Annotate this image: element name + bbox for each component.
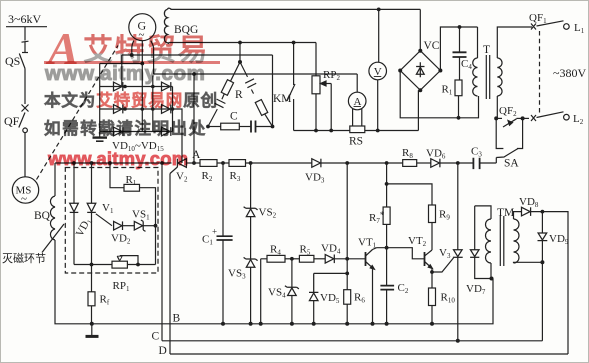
wire: VD8 out: [531, 212, 568, 354]
wire: TM left bottom: [490, 263, 492, 279]
node main bus / R1 branch: [108, 161, 112, 165]
watermark www.aitmy.com gray: [45, 62, 205, 86]
svg-text:C3: C3: [471, 146, 482, 159]
wire: D rail riser (V2 gate): [169, 174, 171, 355]
switch QS: [19, 53, 28, 69]
svg-text:R7*: R7*: [369, 210, 385, 225]
dashed link MS to G: [37, 46, 119, 180]
label 灭磁环节: [2, 252, 46, 265]
svg-text:QF: QF: [4, 114, 20, 128]
wire: T secondary top to QF1: [497, 27, 532, 58]
dashed box (demagnetization unit): [65, 168, 158, 274]
svg-text:VS4: VS4: [268, 287, 286, 300]
node W1/G-left: [130, 53, 134, 57]
label V3: [439, 247, 451, 260]
label R2: [202, 170, 213, 183]
label VS2: [259, 207, 277, 220]
wire: R1 branch: [110, 163, 124, 188]
svg-text:~: ~: [21, 193, 27, 205]
delta left slope capacitor: [208, 99, 225, 126]
svg-text:VD4: VD4: [321, 243, 341, 256]
svg-text:C4: C4: [461, 58, 472, 71]
wire W3 phase right: [154, 73, 358, 75]
svg-text:V2: V2: [176, 171, 188, 184]
label R4: [270, 244, 281, 257]
svg-text:VD3: VD3: [305, 172, 325, 185]
diode VD9: [538, 212, 548, 341]
wire: R9 to VT2 collector: [431, 223, 433, 251]
delta bottom wire mid: [239, 126, 251, 128]
label R6: [354, 292, 365, 305]
resistor R1 (VC): [455, 80, 462, 96]
wire: TM left top link: [475, 206, 491, 219]
G lead right: [153, 48, 155, 74]
switch SA: [496, 118, 522, 163]
rectifier VC (bridge diamond): [400, 51, 440, 90]
node RP2 bottom: [314, 129, 318, 133]
svg-text:L1: L1: [574, 22, 585, 35]
wire: BQ to bottom: [55, 240, 92, 324]
label SA: [504, 158, 519, 170]
diode VD15: [162, 127, 171, 136]
wire: R1 to line A: [458, 96, 460, 118]
node C riser top: [160, 161, 164, 165]
resistor R9: [429, 205, 436, 223]
wire: bridge row1: [100, 86, 173, 88]
label VD1 (rotated): [74, 216, 95, 240]
svg-text:VT2: VT2: [408, 235, 427, 248]
node V3 riser top: [456, 161, 460, 165]
delta right slope resistor: [255, 100, 272, 127]
node R9 branch: [385, 182, 389, 186]
label VS4: [268, 287, 286, 300]
capacitor C3: [473, 158, 496, 169]
label R5: [300, 244, 311, 257]
node VC bottom: [418, 88, 422, 92]
potentiometer RP1: [112, 256, 138, 269]
TM core: [500, 216, 504, 266]
wire: bridge mid bus: [141, 64, 143, 132]
node VC top: [418, 49, 422, 53]
zener VS3: [244, 257, 258, 323]
ground (main): [86, 324, 99, 337]
diode VD4: [325, 255, 334, 264]
watermark logo A: [48, 22, 79, 75]
node TM-left bottom junction: [490, 277, 494, 281]
wire: Rf to B rail: [91, 306, 93, 324]
diode VD13: [162, 82, 171, 91]
svg-text:R6: R6: [354, 292, 365, 305]
svg-text:VD2: VD2: [111, 233, 131, 246]
wire: apex riser: [239, 43, 241, 63]
label R8: [402, 147, 413, 160]
label VD6: [426, 148, 446, 161]
node VD5 branch: [345, 272, 349, 276]
label VD2: [111, 233, 131, 246]
QF2 x-mark and blade to L2: [523, 112, 564, 121]
node VT2 emitter / V3 gate: [430, 270, 434, 274]
label RP2: [323, 69, 340, 82]
wire: top bus from BQG to VC: [171, 8, 421, 10]
label QF: [4, 114, 20, 128]
capacitor C4: [453, 27, 467, 80]
ground at bridge: [93, 132, 108, 142]
label VD7: [466, 283, 486, 296]
resistor R1 (box): [124, 184, 140, 191]
label KM: [273, 93, 292, 105]
G lead left: [131, 48, 133, 55]
node box rail / V1: [90, 263, 94, 267]
G lead mid: [141, 41, 143, 64]
inductor BQG: [164, 8, 171, 43]
wire: R3 to VD3: [246, 162, 312, 164]
resistor R4: [267, 255, 285, 262]
node R6 / B rail: [345, 322, 349, 326]
svg-text:VC: VC: [424, 40, 440, 52]
wire: box bottom rail: [74, 264, 156, 266]
node V / metering rail: [376, 129, 380, 133]
svg-text:V1: V1: [102, 202, 114, 215]
node VD9 top: [541, 210, 545, 214]
node RP1 wiper return: [136, 263, 140, 267]
node RP2 wiper bottom: [329, 129, 333, 133]
wire: bridge col2 anode bus: [152, 76, 154, 132]
svg-text:VS1: VS1: [132, 209, 150, 222]
label C2: [398, 282, 409, 295]
node J1 riser top: [345, 161, 349, 165]
wire: QF to MS: [24, 133, 26, 177]
diode VD11: [114, 105, 123, 114]
svg-text:V3: V3: [439, 247, 451, 260]
wire: T secondary bottom to QF2: [496, 96, 498, 118]
label BQG: [174, 24, 198, 36]
label A (node): [192, 149, 201, 161]
wire W2 from BQG bottom to RP2: [169, 42, 317, 44]
node R10 / B rail: [430, 322, 434, 326]
label VT1: [358, 237, 377, 250]
node C1 branch: [221, 161, 225, 165]
label VD3: [305, 172, 325, 185]
resistor R2: [200, 160, 217, 167]
shunt RS: [350, 109, 365, 133]
node A: [192, 161, 196, 165]
svg-text:R4: R4: [270, 244, 281, 257]
transformer T left winding: [473, 58, 478, 96]
rail B: [92, 279, 493, 324]
svg-text:TM: TM: [497, 207, 514, 219]
breaker QF: [19, 105, 29, 133]
capacitor C1 (electrolytic): [212, 163, 233, 324]
thyristor V3: [432, 163, 463, 341]
resistor Rf: [88, 292, 95, 306]
node V3 / C rail: [456, 339, 460, 343]
wire: feeder vertical top: [24, 27, 26, 41]
svg-text:R: R: [235, 89, 243, 101]
diode VD10: [114, 82, 123, 91]
svg-text:QF1: QF1: [529, 12, 547, 25]
label VD9: [549, 233, 569, 246]
wire: V2 to A node: [186, 162, 200, 164]
watermark line3: [44, 115, 207, 139]
watermark www red: [48, 148, 188, 170]
label ~380V: [553, 66, 586, 80]
svg-text:R5: R5: [300, 244, 311, 257]
wire: VD6 to C3: [440, 162, 474, 164]
svg-text:KM: KM: [273, 93, 292, 105]
svg-text:B: B: [173, 313, 181, 325]
ammeter A: [348, 74, 366, 110]
node main bus / V1: [90, 161, 94, 165]
label C3: [471, 146, 482, 159]
wire: R5 to VD4: [314, 258, 325, 260]
node KM top: [292, 41, 296, 45]
node VS4 branch: [290, 257, 294, 261]
label VD4: [321, 243, 341, 256]
transistor VT1: [366, 248, 377, 324]
wire: A node riser: [193, 74, 195, 163]
terminal L1: [564, 22, 585, 35]
delta right slope capacitor: [240, 62, 256, 94]
diode VD12: [114, 127, 123, 136]
svg-text:QS: QS: [5, 54, 20, 68]
node VC right: [438, 69, 442, 73]
svg-text:R2: R2: [202, 170, 213, 183]
breaker QF1: [531, 21, 564, 30]
label R3: [230, 170, 241, 183]
wire: W1 left drop into bridge: [121, 55, 123, 87]
svg-text:R1: R1: [126, 174, 137, 187]
contactor KM: [287, 43, 295, 131]
svg-text:T: T: [483, 44, 490, 56]
wire: TM right top to VD8: [514, 212, 522, 219]
motor MS: [12, 177, 38, 205]
wire: VC right vertex riser: [440, 27, 477, 71]
resistor R10: [429, 288, 436, 306]
transformer TM right winding: [514, 219, 520, 263]
watermark line2: [44, 87, 218, 111]
label R1 (VC): [442, 84, 453, 97]
label C (delta): [230, 111, 238, 123]
capacitor C2: [380, 248, 394, 324]
diode VD8: [522, 207, 531, 216]
svg-text:VS3: VS3: [228, 268, 246, 281]
svg-text:C2: C2: [398, 282, 409, 295]
svg-text:VD7: VD7: [466, 283, 486, 296]
inductor BQ: [50, 196, 55, 240]
wire: V meter riser: [378, 9, 380, 62]
label V2: [176, 171, 188, 184]
transistor VT2: [425, 250, 433, 288]
wire: VD5 branch: [314, 272, 348, 274]
diode VD6: [431, 159, 440, 168]
label C: [152, 331, 160, 343]
terminal L2: [564, 113, 584, 126]
label VT2: [408, 235, 427, 248]
zener VS1: [134, 220, 155, 231]
node VS3 / B rail: [249, 322, 253, 326]
wire: VD3 to R8: [321, 162, 403, 164]
label R1 (box): [126, 174, 137, 187]
wire: bridge row2: [100, 108, 173, 110]
transformer T right winding: [497, 58, 502, 96]
svg-text:C: C: [230, 111, 238, 123]
label TM: [497, 207, 514, 219]
node main bus / VD1: [72, 161, 76, 165]
node C2 / B rail: [385, 322, 389, 326]
label 3~6kV: [8, 12, 41, 26]
node W3/A-node riser: [192, 72, 196, 76]
svg-text:R3: R3: [230, 170, 241, 183]
label R9: [439, 209, 450, 222]
svg-text:R10: R10: [441, 292, 456, 305]
wire: R10 to B rail: [431, 306, 433, 324]
svg-text:C: C: [152, 331, 160, 343]
wire: T primary top riser: [477, 27, 479, 58]
node VD5 / B rail: [312, 322, 316, 326]
wire: R4 to R5: [285, 258, 299, 260]
svg-text:R8: R8: [402, 147, 413, 160]
node VS2 branch: [249, 161, 253, 165]
watermark 艾特贸易: [83, 25, 209, 69]
dashed link QF1-QF2: [539, 31, 541, 113]
diode VD14: [162, 105, 171, 114]
resistor R5: [299, 255, 314, 262]
svg-text:VS2: VS2: [259, 207, 277, 220]
label VD8: [519, 196, 539, 209]
label V1: [102, 202, 114, 215]
svg-text:L2: L2: [573, 113, 584, 126]
diode VD7: [470, 206, 491, 279]
resistor R7: [383, 163, 390, 248]
wire: box to Rf: [91, 265, 93, 292]
wire: bridge left bus: [99, 64, 101, 132]
wire: C rail riser: [161, 163, 163, 341]
node VS1/right bus: [154, 224, 158, 228]
resistor R3: [229, 160, 246, 167]
node VT1 emitter / B rail: [371, 322, 375, 326]
node R7/C2: [385, 246, 389, 250]
wire: metering rail to VC bottom: [417, 90, 419, 130]
svg-text:VD9: VD9: [549, 233, 569, 246]
wire: bridge output: [173, 109, 183, 163]
svg-text:SA: SA: [504, 158, 519, 170]
wire: branch to R9: [387, 184, 432, 205]
wire: bridge row3: [100, 131, 173, 133]
thyristor V2: [170, 159, 186, 174]
G slip-ring neck: [132, 41, 154, 49]
node VS4 / B rail: [290, 322, 294, 326]
label RP1: [113, 280, 130, 293]
node C1 / B rail: [221, 322, 225, 326]
label R (delta): [235, 89, 243, 101]
node TM right bottom: [540, 260, 544, 264]
rail C: [162, 340, 542, 342]
svg-text:RP2: RP2: [323, 69, 340, 82]
wire: VD4 to VT1 base: [334, 258, 365, 260]
wire: QS to QF: [24, 69, 26, 105]
label VD5: [320, 292, 340, 305]
svg-text:3~6kV: 3~6kV: [8, 12, 41, 26]
breaker QF2: [496, 118, 522, 127]
wire W1 phase left: [122, 54, 273, 56]
wire: R8 to VD6: [417, 162, 431, 164]
node delta apex: [238, 60, 242, 64]
label VS3: [228, 268, 246, 281]
watermark red underline: [44, 61, 220, 64]
node R7 riser top: [385, 161, 389, 165]
label T: [483, 44, 490, 56]
node C4 top: [458, 25, 462, 29]
label QF2: [499, 105, 517, 118]
label RS: [349, 136, 363, 148]
wire: R1 to right bus: [140, 188, 156, 265]
wire: VC left vertex to T primary bottom: [400, 71, 478, 118]
svg-text:QF2: QF2: [499, 105, 517, 118]
svg-text:VD6: VD6: [426, 148, 446, 161]
zener VS2: [244, 163, 258, 259]
wire: feeder to QS: [24, 42, 26, 52]
label VS1: [132, 209, 150, 222]
label VC: [424, 40, 440, 52]
voltmeter V: [369, 62, 387, 130]
wire: R6 to B rail: [346, 304, 348, 324]
diode VD1: [70, 163, 79, 265]
pointer line: [42, 224, 64, 253]
svg-text:VD5: VD5: [320, 292, 340, 305]
svg-text:Rf: Rf: [100, 294, 110, 307]
bridge junction nodes: [123, 85, 174, 111]
disconnect tick: [22, 41, 29, 42]
delta bottom capacitor: [251, 121, 274, 133]
generator G: [129, 14, 156, 41]
node top bus / V branch: [377, 7, 381, 11]
label Rf: [100, 294, 110, 307]
label QS: [5, 54, 20, 68]
wire: 3~6kV underline: [6, 26, 47, 28]
label R7: [369, 210, 385, 225]
delta bottom resistor: [221, 123, 240, 130]
diode VD3: [312, 159, 321, 168]
label R10: [441, 292, 456, 305]
node J1: [345, 257, 349, 261]
label VD10~VD15: [112, 140, 164, 153]
wire: main DC bus y163: [55, 162, 172, 164]
wire: VT1 collector to VT2 base: [377, 248, 425, 259]
potentiometer RP2: [312, 43, 331, 131]
wire: delta right corner riser to W1: [272, 55, 274, 127]
label C4: [461, 58, 472, 71]
label C1: [202, 234, 213, 247]
T core: [486, 55, 489, 99]
svg-text:RP1: RP1: [113, 280, 130, 293]
node mid-bus top: [140, 62, 144, 66]
label BQ: [34, 210, 51, 222]
node apex on W2: [238, 41, 242, 45]
node VC left: [398, 69, 402, 73]
diode VD5: [309, 273, 318, 323]
node V2 cathode / bridge output: [181, 162, 183, 164]
delta bottom left wire: [208, 126, 221, 128]
transformer TM left winding: [486, 219, 492, 263]
node R1 drop: [457, 116, 461, 120]
svg-text:BQ: BQ: [34, 210, 51, 222]
svg-text:D: D: [159, 345, 167, 357]
node QF2 right: [521, 116, 525, 120]
label B: [173, 313, 181, 325]
rail D: [170, 353, 568, 355]
wire: J1 riser: [346, 163, 348, 259]
svg-text:VT1: VT1: [358, 237, 377, 250]
